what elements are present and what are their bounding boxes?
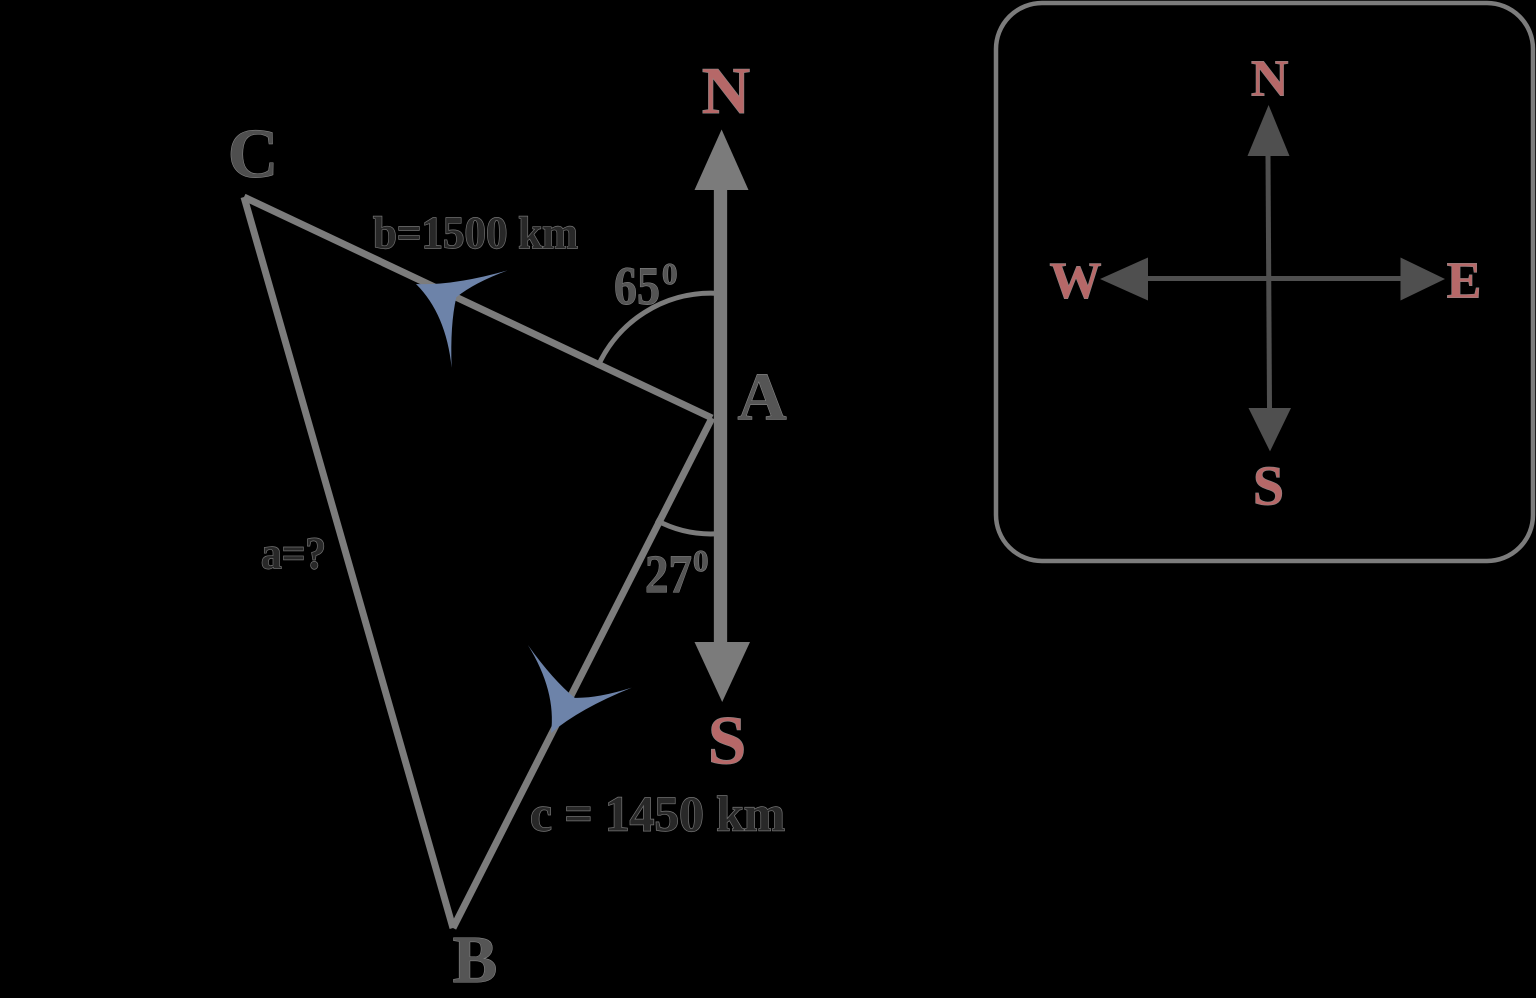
svg-text:65: 65: [614, 256, 660, 316]
svg-text:N: N: [1251, 50, 1289, 107]
svg-text:a=?: a=?: [261, 529, 326, 579]
blue direction dart on side b (pointing to C): [390, 237, 507, 371]
south arrowhead: [695, 642, 751, 702]
compass legend box: [996, 3, 1533, 561]
65 degree arc at A: [597, 293, 714, 367]
compass north arrowhead: [1248, 105, 1290, 156]
svg-text:S: S: [708, 702, 746, 778]
svg-text:27: 27: [645, 544, 692, 604]
compass south arrowhead: [1249, 408, 1292, 451]
svg-text:B: B: [453, 923, 498, 997]
svg-text:c = 1450 km: c = 1450 km: [530, 786, 785, 842]
svg-text:b=1500 km: b=1500 km: [373, 207, 578, 258]
compass W-E axis line: [1147, 276, 1402, 281]
svg-text:N: N: [702, 54, 750, 128]
svg-text:0: 0: [662, 256, 678, 291]
compass west arrowhead: [1100, 258, 1148, 301]
north arrowhead: [695, 130, 749, 191]
compass N-S axis line: [1268, 156, 1270, 409]
svg-text:S: S: [1253, 455, 1284, 517]
side c: line B-A: [453, 418, 712, 928]
27 degree arc at A: [656, 520, 714, 534]
svg-text:W: W: [1050, 253, 1102, 310]
svg-text:A: A: [737, 359, 786, 435]
svg-text:C: C: [228, 116, 279, 193]
blue direction dart on side c (pointing to B): [497, 637, 632, 756]
svg-text:E: E: [1447, 252, 1482, 309]
svg-text:0: 0: [693, 543, 709, 578]
side b: line A-C: [244, 197, 712, 418]
north-south arrow shaft through A: [714, 189, 727, 643]
side a: line C-B: [244, 197, 453, 928]
compass east arrowhead: [1401, 258, 1446, 301]
